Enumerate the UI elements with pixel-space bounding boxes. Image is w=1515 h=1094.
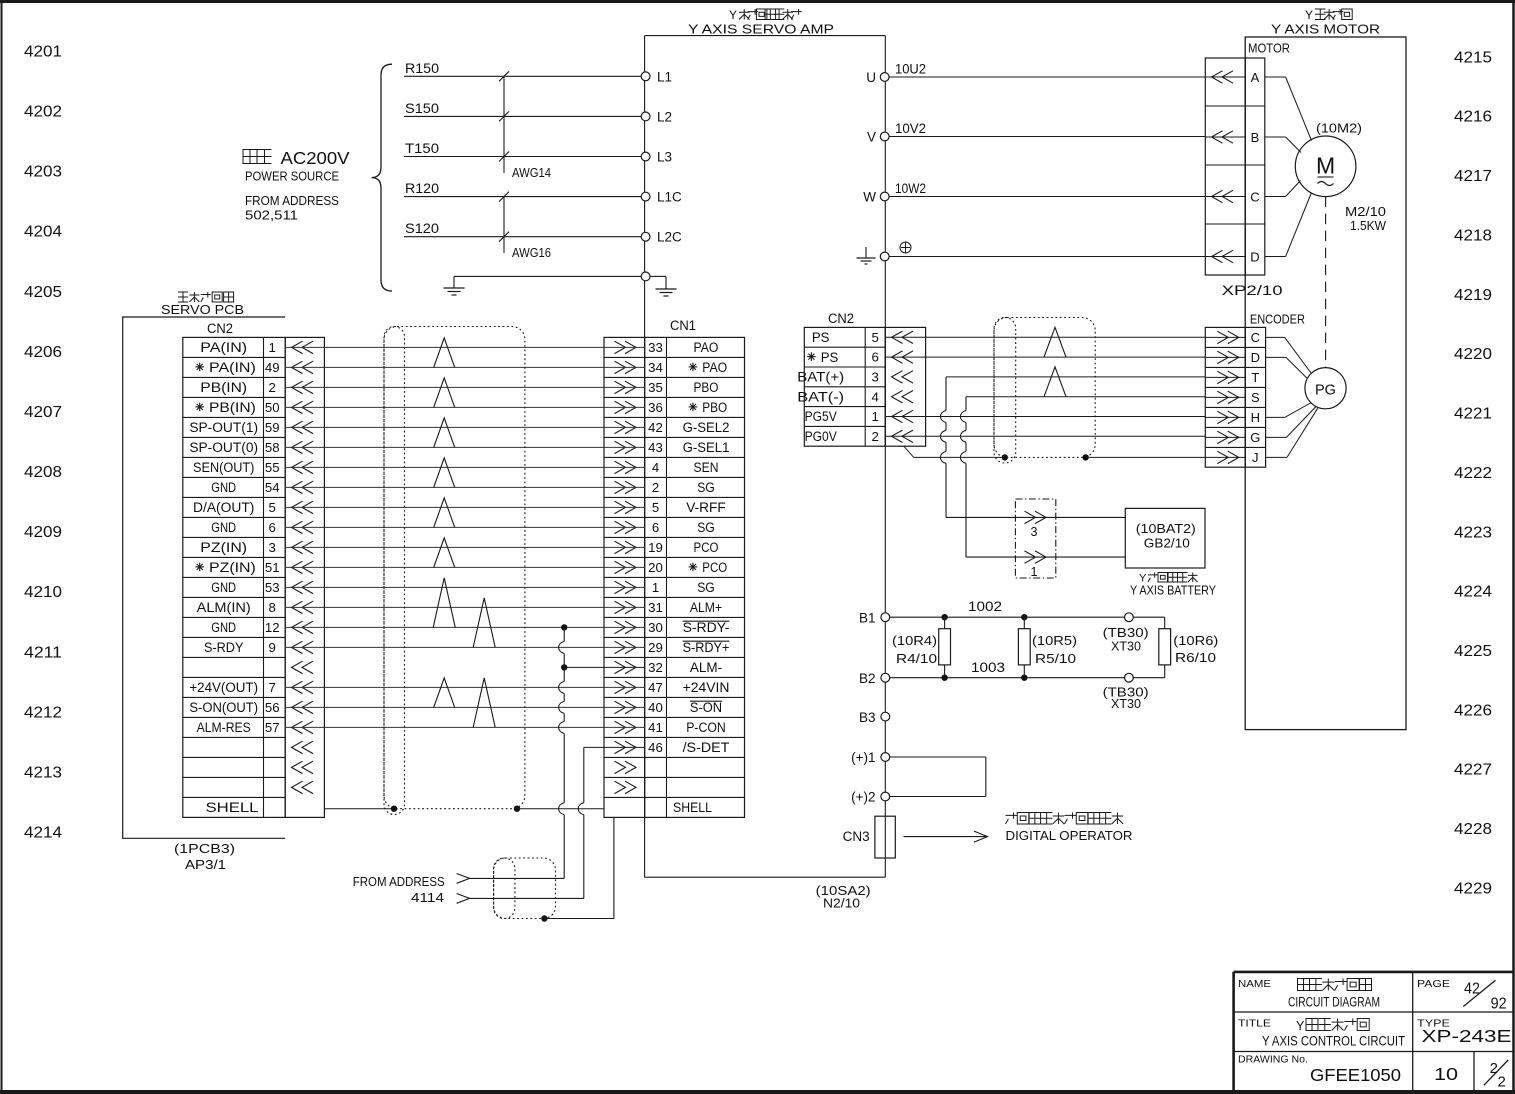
terminal PE on servo amp left — [641, 272, 676, 296]
svg-text:3: 3 — [872, 370, 879, 385]
svg-text:4: 4 — [652, 460, 659, 475]
motor M2/10 circle — [1295, 136, 1356, 197]
svg-text:(10R6): (10R6) — [1173, 633, 1218, 648]
svg-text:4: 4 — [872, 389, 879, 404]
svg-text:XT30: XT30 — [1111, 639, 1141, 654]
svg-text:20: 20 — [648, 560, 663, 575]
label サーボ基板 (servo board) — [178, 292, 234, 302]
svg-text:35: 35 — [648, 380, 663, 395]
title block NAME cell — [1238, 978, 1271, 990]
sheet 2/2 — [1484, 1060, 1508, 1091]
svg-text:PA(IN): PA(IN) — [209, 360, 256, 375]
svg-text:4217: 4217 — [1454, 168, 1492, 185]
arrow CN3 to digital operator — [904, 831, 988, 842]
svg-text:/S-DET: /S-DET — [683, 740, 730, 755]
left CN2 connector table grid — [183, 337, 325, 817]
label M2/10 1.5KW — [1345, 204, 1387, 233]
svg-text:PB(IN): PB(IN) — [209, 400, 256, 415]
label (10SA2) N2/10 — [816, 883, 871, 911]
svg-text:+24VIN: +24VIN — [683, 680, 730, 695]
svg-text:Y AXIS SERVO AMP: Y AXIS SERVO AMP — [688, 22, 834, 37]
svg-text:(+)2: (+)2 — [851, 790, 875, 805]
svg-text:4210: 4210 — [24, 584, 62, 601]
svg-text:TITLE: TITLE — [1238, 1018, 1271, 1030]
svg-text:4202: 4202 — [24, 104, 62, 121]
svg-text:46: 46 — [648, 740, 663, 755]
shield wire to encoder J — [904, 446, 1206, 457]
svg-text:M2/10: M2/10 — [1345, 204, 1386, 219]
svg-text:5: 5 — [269, 500, 276, 515]
motor connector pin A — [1205, 70, 1259, 85]
terminal (+)1 — [851, 750, 890, 765]
svg-text:Y AXIS CONTROL CIRCUIT: Y AXIS CONTROL CIRCUIT — [1262, 1034, 1405, 1049]
svg-text:1: 1 — [269, 340, 276, 355]
svg-text:55: 55 — [265, 460, 280, 475]
svg-text:SP-OUT(1): SP-OUT(1) — [189, 420, 258, 435]
svg-text:GND: GND — [211, 480, 236, 495]
svg-text:57: 57 — [265, 720, 280, 735]
svg-text:+24V(OUT): +24V(OUT) — [189, 680, 258, 695]
svg-text:4221: 4221 — [1454, 406, 1492, 423]
wire PG0V to encoder G — [885, 435, 1205, 437]
svg-text:56: 56 — [265, 700, 280, 715]
svg-text:1003: 1003 — [971, 660, 1005, 675]
svg-text:R4/10: R4/10 — [896, 651, 937, 666]
wire ALM- from junction to CN1 pin 32 — [561, 664, 645, 670]
svg-text:B2: B2 — [859, 671, 876, 686]
motor M1 box outline — [1245, 37, 1406, 730]
svg-text:(10M2): (10M2) — [1316, 121, 1362, 136]
svg-text:47: 47 — [648, 680, 663, 695]
svg-text:R150: R150 — [405, 61, 439, 76]
wire B1 net 1002 — [890, 599, 1165, 617]
drawing number GFEE1050 — [1310, 1065, 1401, 1085]
label 電源 AC200V (power source) — [243, 148, 350, 168]
svg-text:PB(IN): PB(IN) — [200, 380, 247, 395]
svg-text:SHELL: SHELL — [673, 800, 712, 815]
title block outline — [1234, 972, 1514, 1092]
cable group vertical AWG16 — [499, 192, 509, 253]
right margin row labels 4215-4229 — [1454, 49, 1492, 897]
terminal W and wire 10W2 to motor connector — [863, 181, 1205, 205]
svg-text:SHELL: SHELL — [206, 800, 259, 815]
svg-text:PG5V: PG5V — [805, 409, 837, 424]
svg-text:10: 10 — [1434, 1064, 1458, 1084]
svg-text:GND: GND — [211, 580, 236, 595]
motor connector pin D — [1205, 249, 1259, 264]
svg-text:4227: 4227 — [1454, 762, 1492, 779]
svg-text:(+)1: (+)1 — [851, 750, 875, 765]
ground symbol at power input — [444, 288, 465, 295]
svg-text:Y: Y — [1296, 1019, 1305, 1033]
label CN2 left table — [207, 321, 233, 336]
svg-text:9: 9 — [269, 640, 276, 655]
cable group tick marks and vertical AWG14 — [499, 71, 509, 173]
wire from address to /S-DET net — [468, 897, 584, 899]
svg-text:B: B — [1251, 130, 1260, 145]
svg-text:4214: 4214 — [24, 825, 62, 842]
svg-text:PCO: PCO — [694, 540, 719, 555]
svg-text:SEN(OUT): SEN(OUT) — [193, 460, 254, 475]
terminal B3 — [859, 710, 890, 725]
battery connector arrow pin 1 — [1025, 551, 1047, 579]
svg-text:POWER SOURCE: POWER SOURCE — [245, 169, 339, 184]
twisted pair peak BAT pair — [1044, 367, 1066, 397]
CN1 connector table grid — [604, 337, 745, 817]
svg-text:6: 6 — [652, 520, 659, 535]
svg-text:1: 1 — [1030, 565, 1037, 579]
resistor R4 (10R4) R4/10 — [892, 617, 951, 678]
twisted pair peaks on ribbon — [433, 338, 495, 728]
svg-text:H: H — [1251, 410, 1260, 425]
svg-text:4208: 4208 — [24, 464, 62, 481]
junction dots B1/B2 wires — [941, 614, 1027, 681]
svg-text:6: 6 — [872, 350, 879, 365]
wire T150 to servo amp — [404, 141, 641, 157]
svg-text:5: 5 — [652, 500, 659, 515]
svg-text:4204: 4204 — [24, 224, 62, 241]
svg-text:4224: 4224 — [1454, 584, 1492, 601]
encoder connector pin H — [1205, 410, 1260, 425]
svg-text:12: 12 — [265, 620, 280, 635]
wire BAT(-) net to encoder S — [966, 396, 1205, 398]
svg-text:2: 2 — [872, 429, 879, 444]
label CIRCUIT DIAGRAM — [1288, 995, 1380, 1010]
protective earth circle symbol — [900, 242, 911, 253]
vertical wire from /S-DET to FROM ADDRESS 4114 — [578, 747, 584, 898]
svg-text:L2: L2 — [657, 109, 672, 124]
svg-text:S150: S150 — [405, 101, 439, 116]
encoder PG circle — [1305, 368, 1346, 409]
svg-text:C: C — [1250, 189, 1259, 204]
title block PAGE cell — [1417, 978, 1450, 990]
label ディジタルオペレータ (digital operator) — [1006, 813, 1124, 825]
twisted pair peak PS pair — [1044, 327, 1066, 357]
left margin row labels 4201-4214 — [24, 44, 62, 842]
svg-text:SEN: SEN — [694, 460, 719, 475]
terminal (+)2 — [851, 790, 890, 805]
svg-text:2: 2 — [269, 380, 276, 395]
svg-text:PG0V: PG0V — [805, 429, 837, 444]
svg-text:4212: 4212 — [24, 704, 62, 721]
svg-text:CN1: CN1 — [670, 318, 696, 333]
title block TYPE cell — [1417, 1018, 1450, 1030]
svg-text:(10R5): (10R5) — [1032, 633, 1077, 648]
svg-text:W: W — [863, 190, 876, 205]
cable shield rounded rect left ribbon — [384, 327, 525, 809]
svg-text:41: 41 — [648, 720, 663, 735]
svg-text:ENCODER: ENCODER — [1250, 312, 1305, 327]
servo PCB board AP3/1 outline — [123, 317, 286, 838]
terminal B1 — [859, 611, 890, 626]
svg-text:4203: 4203 — [24, 164, 62, 181]
svg-text:4213: 4213 — [24, 765, 62, 782]
brace for power source group — [372, 64, 393, 291]
svg-text:GND: GND — [211, 620, 236, 635]
encoder connector pin S — [1205, 390, 1260, 405]
title block DRAWING No cell — [1238, 1054, 1308, 1066]
svg-text:CIRCUIT DIAGRAM: CIRCUIT DIAGRAM — [1288, 995, 1380, 1010]
cable shield rounded rect encoder — [994, 318, 1095, 458]
svg-text:PCO: PCO — [702, 560, 727, 575]
wire B2 net 1003 — [890, 660, 1165, 678]
wire BAT(+) net to encoder T — [946, 376, 1205, 378]
label ENCODER — [1250, 312, 1305, 327]
svg-text:PAO: PAO — [694, 340, 719, 355]
svg-text:NAME: NAME — [1238, 978, 1271, 990]
svg-text:XT30: XT30 — [1111, 696, 1141, 711]
svg-text:AC200V: AC200V — [281, 148, 350, 168]
wires encoder pins to PG — [1266, 337, 1318, 457]
svg-text:G-SEL1: G-SEL1 — [683, 440, 730, 455]
right CN2 connector table grid — [804, 327, 925, 446]
svg-text:34: 34 — [648, 360, 663, 375]
svg-text:DRAWING No.: DRAWING No. — [1238, 1054, 1308, 1066]
label POWER SOURCE — [245, 169, 339, 184]
svg-text:ALM-RES: ALM-RES — [197, 720, 251, 735]
svg-text:4114: 4114 — [411, 890, 444, 905]
svg-text:SG: SG — [697, 580, 715, 595]
svg-text:P-CON: P-CON — [686, 720, 726, 735]
vertical wire from S-RDY-/ALM- junctions to FROM ADDRESS — [559, 627, 565, 878]
svg-text:42: 42 — [648, 420, 663, 435]
svg-text:B1: B1 — [859, 611, 876, 626]
svg-text:L3: L3 — [657, 150, 672, 165]
svg-text:4201: 4201 — [24, 44, 62, 61]
svg-text:Y AXIS BATTERY: Y AXIS BATTERY — [1130, 583, 1216, 598]
terminal B2 — [859, 671, 890, 686]
shield junction dots encoder cable — [1002, 454, 1089, 460]
svg-text:PS: PS — [812, 330, 830, 345]
svg-text:J: J — [1252, 450, 1259, 465]
svg-text:4205: 4205 — [24, 284, 62, 301]
svg-text:V-RFF: V-RFF — [686, 500, 726, 515]
svg-text:92: 92 — [1491, 995, 1507, 1012]
svg-text:V: V — [867, 130, 876, 145]
svg-text:S120: S120 — [405, 221, 439, 236]
battery wire 3 to battery box — [946, 516, 1125, 518]
jumper wire between (+)1 and (+)2 — [890, 757, 986, 797]
svg-text:1002: 1002 — [968, 599, 1002, 614]
signal arrow into wire 2 — [457, 894, 470, 904]
shield wire SHELL left segment — [324, 808, 394, 810]
svg-text:49: 49 — [265, 360, 280, 375]
svg-text:SG: SG — [697, 480, 715, 495]
svg-text:4207: 4207 — [24, 404, 62, 421]
terminal L2 on servo amp — [641, 109, 672, 124]
svg-text:M: M — [1316, 153, 1335, 179]
svg-text:L1C: L1C — [657, 190, 682, 205]
motor connector XP2/10 table — [1205, 58, 1265, 275]
connector CN3 — [843, 816, 896, 858]
svg-text:PS: PS — [821, 350, 839, 365]
cable shield oval left ribbon — [384, 327, 405, 815]
svg-text:4215: 4215 — [1454, 49, 1492, 66]
svg-text:Y: Y — [1305, 8, 1313, 22]
svg-text:PAO: PAO — [702, 360, 727, 375]
vertical wire from CN1 shell to bottom shield — [613, 817, 615, 918]
svg-text:A: A — [1251, 70, 1260, 85]
label CN2 right table — [828, 311, 854, 326]
svg-text:GFEE1050: GFEE1050 — [1310, 1065, 1401, 1085]
svg-text:L1: L1 — [657, 69, 672, 84]
svg-text:32: 32 — [648, 660, 663, 675]
svg-text:S-ON(OUT): S-ON(OUT) — [189, 700, 258, 715]
svg-text:5: 5 — [872, 330, 879, 345]
wire from address to S-RDY net — [468, 877, 564, 879]
label (1PCB3) AP3/1 — [174, 842, 235, 872]
svg-text:S-RDY: S-RDY — [204, 640, 244, 655]
svg-text:PAGE: PAGE — [1417, 978, 1450, 990]
svg-text:S-RDY+: S-RDY+ — [683, 640, 730, 655]
svg-text:SP-OUT(0): SP-OUT(0) — [189, 440, 258, 455]
svg-text:ALM(IN): ALM(IN) — [197, 600, 251, 615]
servo amp U1 box outline — [645, 36, 886, 878]
terminal E (earth) on servo amp right — [857, 247, 1206, 264]
svg-text:GND: GND — [211, 520, 236, 535]
svg-text:4218: 4218 — [1454, 227, 1492, 244]
svg-text:S: S — [1251, 390, 1260, 405]
svg-text:T150: T150 — [405, 141, 439, 156]
svg-text:43: 43 — [648, 440, 663, 455]
junction dot on S-RDY- wire — [561, 624, 567, 630]
svg-text:ALM-: ALM- — [690, 660, 722, 675]
left CN2 arrows — [292, 341, 314, 793]
svg-text:T: T — [1251, 370, 1259, 385]
title block TITLE cell — [1238, 1018, 1271, 1030]
svg-text:DIGITAL OPERATOR: DIGITAL OPERATOR — [1006, 828, 1133, 843]
svg-text:(1PCB3): (1PCB3) — [174, 842, 235, 856]
motor connector pin C — [1205, 189, 1259, 204]
wire PS to encoder C — [885, 336, 1205, 338]
svg-text:CN2: CN2 — [828, 311, 854, 326]
label SERVO PCB — [161, 302, 244, 317]
bottom cable shield oval — [494, 858, 515, 919]
svg-text:G: G — [1250, 430, 1260, 445]
label XP2/10 — [1222, 283, 1283, 298]
svg-text:10U2: 10U2 — [895, 62, 926, 77]
wire R150 to servo amp — [404, 61, 641, 77]
svg-text:4206: 4206 — [24, 344, 62, 361]
resistor R5 (10R5) R5/10 — [1018, 617, 1077, 678]
label Y AXIS BATTERY — [1130, 583, 1216, 598]
encoder connector pin G — [1205, 430, 1260, 445]
label FROM ADDRESS 4114 — [353, 874, 445, 905]
left CN2 pin names and numbers — [189, 340, 279, 815]
svg-text:3: 3 — [269, 540, 276, 555]
terminal U and wire 10U2 to motor connector — [866, 62, 1205, 86]
terminal L3 on servo amp — [641, 150, 672, 165]
svg-text:4211: 4211 — [24, 644, 62, 661]
label AWG14 — [512, 166, 551, 180]
vertical battery wire from BAT(+) net — [940, 377, 946, 518]
svg-text:1: 1 — [652, 580, 659, 595]
svg-text:4225: 4225 — [1454, 643, 1492, 660]
signal arrow into wire 1 — [457, 874, 470, 884]
label FROM ADDRESS 502,511 — [245, 193, 339, 223]
bottom shield junction dot — [541, 915, 547, 921]
label Y軸サーボアンプ (Y axis servo amp) — [729, 8, 802, 22]
svg-text:S-ON: S-ON — [690, 700, 722, 715]
terminal L1 on servo amp — [641, 69, 672, 84]
CN1 arrows — [615, 341, 637, 793]
label DIGITAL OPERATOR — [1006, 828, 1133, 843]
wire S150 to servo amp — [404, 101, 641, 117]
battery wire 1 to battery box — [966, 556, 1125, 558]
svg-text:4222: 4222 — [1454, 465, 1492, 482]
bottom shield wire to CN1 vertical — [544, 918, 614, 920]
svg-text:AP3/1: AP3/1 — [185, 858, 226, 872]
svg-text:BAT(-): BAT(-) — [797, 389, 844, 404]
page number 42/92 — [1463, 980, 1506, 1012]
svg-text:D: D — [1251, 350, 1260, 365]
svg-text:54: 54 — [265, 480, 280, 495]
svg-text:4209: 4209 — [24, 524, 62, 541]
bottom cable shield rounded rect — [494, 858, 556, 919]
svg-text:(10R4): (10R4) — [892, 633, 937, 648]
svg-text:3: 3 — [1030, 525, 1037, 539]
label Y軸バッテリ (Y axis battery) — [1139, 573, 1198, 585]
right CN2 pin names and numbers — [797, 330, 879, 444]
svg-text:4229: 4229 — [1454, 881, 1492, 898]
label Y AXIS SERVO AMP — [688, 22, 834, 37]
svg-text:30: 30 — [648, 620, 663, 635]
right CN2 arrows — [892, 331, 914, 442]
svg-text:MOTOR: MOTOR — [1248, 41, 1290, 56]
svg-text:XP2/10: XP2/10 — [1222, 283, 1283, 298]
svg-text:BAT(+): BAT(+) — [797, 370, 844, 385]
wire PG5V to encoder H — [885, 416, 1205, 418]
svg-text:CN2: CN2 — [207, 321, 233, 336]
svg-text:59: 59 — [265, 420, 280, 435]
vertical battery wire from BAT(-) net — [960, 397, 966, 557]
svg-text:33: 33 — [648, 340, 663, 355]
svg-text:R5/10: R5/10 — [1035, 651, 1076, 666]
ribbon wires CN2 to CN1 — [285, 347, 644, 727]
svg-text:XP-243E: XP-243E — [1422, 1026, 1512, 1046]
svg-text:8: 8 — [269, 600, 276, 615]
svg-text:R6/10: R6/10 — [1175, 650, 1216, 665]
terminal L2C on servo amp — [641, 230, 682, 245]
shield junction dot right — [514, 806, 520, 812]
label AWG16 — [512, 246, 551, 260]
svg-text:36: 36 — [648, 400, 663, 415]
svg-text:AWG16: AWG16 — [512, 246, 551, 260]
svg-text:PZ(IN): PZ(IN) — [209, 560, 256, 575]
wires motor pins to motor circle — [1265, 77, 1312, 257]
svg-text:PBO: PBO — [694, 380, 719, 395]
svg-text:D: D — [1250, 249, 1259, 264]
cable shield oval encoder — [994, 318, 1016, 464]
resistor R6 (10R6) R6/10 — [1159, 617, 1219, 678]
label Y軸制御回路 (Y axis control circuit) — [1296, 1019, 1369, 1034]
encoder connector pin J — [1205, 450, 1258, 465]
svg-text:C: C — [1251, 330, 1260, 345]
shield wire SHELL right segment — [517, 808, 604, 810]
encoder connector pin T — [1205, 370, 1259, 385]
svg-text:D/A(OUT): D/A(OUT) — [193, 500, 254, 515]
svg-text:1: 1 — [872, 409, 879, 424]
svg-text:4216: 4216 — [1454, 109, 1492, 126]
motor connector pin B — [1205, 130, 1259, 145]
svg-text:PZ(IN): PZ(IN) — [200, 540, 247, 555]
svg-text:AWG14: AWG14 — [512, 166, 551, 180]
svg-text:10V2: 10V2 — [895, 121, 926, 136]
svg-text:51: 51 — [265, 560, 280, 575]
svg-text:PBO: PBO — [702, 400, 727, 415]
svg-text:Y AXIS MOTOR: Y AXIS MOTOR — [1271, 22, 1380, 37]
wire S120 to servo amp — [404, 221, 641, 237]
